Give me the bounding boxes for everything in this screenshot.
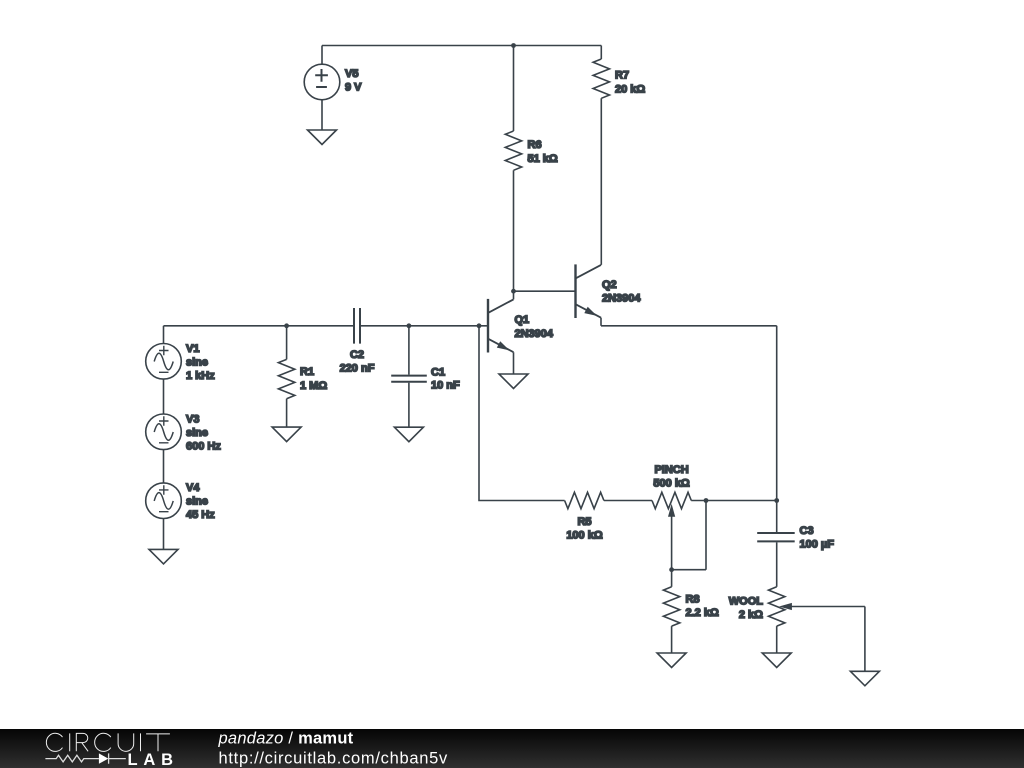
- wire wiper to right ground: [864, 607, 866, 672]
- svg-text:2 kΩ: 2 kΩ: [739, 609, 763, 621]
- ground R1: [272, 427, 301, 442]
- svg-text:100 kΩ: 100 kΩ: [566, 530, 603, 542]
- logo CIRCUIT text: [46, 733, 170, 751]
- svg-text:V4: V4: [186, 482, 200, 494]
- node feedback branch dot: [477, 323, 482, 328]
- svg-text:45 Hz: 45 Hz: [186, 509, 215, 521]
- source V4: [146, 483, 182, 519]
- svg-text:PINCH: PINCH: [654, 464, 688, 476]
- svg-text:R1: R1: [300, 366, 314, 378]
- wire R5 to PINCH: [604, 500, 652, 502]
- wire V3-V4: [163, 450, 165, 483]
- potentiometer WOOL: [769, 587, 865, 653]
- svg-text:20 kΩ: 20 kΩ: [615, 84, 645, 96]
- transistor Q2: [576, 264, 602, 325]
- wire wiper link: [672, 501, 706, 570]
- svg-text:V1: V1: [186, 343, 199, 355]
- svg-text:Q1: Q1: [515, 314, 530, 326]
- wire V1-V3: [163, 379, 165, 414]
- wire base rail Q2: [514, 290, 576, 292]
- node collector junction dot: [511, 289, 516, 294]
- svg-text:2.2 kΩ: 2.2 kΩ: [686, 607, 719, 619]
- svg-text:V3: V3: [186, 413, 199, 425]
- svg-text:1 kHz: 1 kHz: [186, 370, 215, 382]
- svg-text:9 V: 9 V: [345, 82, 362, 94]
- wire V4 bottom lead: [163, 519, 165, 550]
- svg-text:V5: V5: [345, 68, 358, 80]
- wire feedback vertical: [479, 326, 565, 501]
- ground Q1: [499, 374, 528, 389]
- resistor R5: [565, 492, 604, 508]
- svg-text:R8: R8: [686, 594, 700, 606]
- resistor R8: [663, 570, 679, 653]
- source V3: [146, 414, 182, 450]
- ground source chain: [149, 549, 178, 564]
- ground C1: [394, 427, 423, 442]
- ground R8: [657, 653, 686, 668]
- wire V5 top lead: [321, 46, 323, 65]
- wire V1 top lead: [163, 326, 165, 344]
- svg-text:600 Hz: 600 Hz: [186, 440, 221, 452]
- svg-text:R5: R5: [577, 516, 591, 528]
- transistor Q1: [488, 291, 514, 374]
- wire Q2 emitter rail: [601, 326, 777, 501]
- node C1 top dot: [407, 323, 412, 328]
- potentiometer PINCH: [652, 492, 691, 569]
- svg-text:100 µF: 100 µF: [800, 538, 835, 550]
- node PINCH wiper link dot: [704, 498, 709, 503]
- svg-text:220 nF: 220 nF: [340, 363, 375, 375]
- logo resistor squiggle: [45, 755, 99, 762]
- source V1: [146, 344, 182, 380]
- svg-text:1 MΩ: 1 MΩ: [300, 380, 327, 392]
- svg-text:WOOL: WOOL: [729, 596, 763, 608]
- wire top rail: [322, 45, 601, 47]
- wire V5 bottom lead: [321, 100, 323, 130]
- svg-text:sine: sine: [186, 496, 208, 508]
- svg-text:500 kΩ: 500 kΩ: [653, 477, 690, 489]
- capacitor C2: [354, 308, 360, 344]
- logo diode: [99, 753, 108, 763]
- svg-text:http://circuitlab.com/chban5v: http://circuitlab.com/chban5v: [219, 750, 448, 768]
- wire input rail right: [360, 325, 488, 327]
- svg-text:R6: R6: [528, 139, 542, 151]
- svg-text:2N3904: 2N3904: [515, 328, 554, 340]
- ground right: [850, 671, 879, 686]
- ground V5: [308, 130, 337, 145]
- svg-text:51 kΩ: 51 kΩ: [528, 153, 558, 165]
- svg-text:C3: C3: [800, 525, 814, 537]
- capacitor C3: [757, 501, 795, 587]
- svg-text:LAB: LAB: [128, 751, 179, 768]
- svg-text:10 nF: 10 nF: [431, 380, 460, 392]
- capacitor C1: [391, 326, 427, 427]
- svg-text:sine: sine: [186, 427, 208, 439]
- ground WOOL: [762, 653, 791, 668]
- wire input rail left: [164, 325, 355, 327]
- node wiper R8 dot: [669, 567, 674, 572]
- resistor R6: [505, 46, 521, 292]
- svg-text:pandazo / mamut: pandazo / mamut: [218, 730, 354, 748]
- node top junction dot: [511, 43, 516, 48]
- resistor R1: [278, 326, 294, 427]
- svg-text:sine: sine: [186, 356, 208, 368]
- svg-text:Q2: Q2: [602, 279, 617, 291]
- svg-text:C1: C1: [431, 366, 445, 378]
- resistor R7: [593, 46, 609, 265]
- svg-text:2N3904: 2N3904: [602, 292, 641, 304]
- wire PINCH to output node: [691, 500, 777, 502]
- node R1 top dot: [284, 323, 289, 328]
- svg-text:R7: R7: [615, 70, 629, 82]
- svg-text:C2: C2: [350, 349, 364, 361]
- node output junction dot: [774, 498, 779, 503]
- source V5: [304, 64, 340, 100]
